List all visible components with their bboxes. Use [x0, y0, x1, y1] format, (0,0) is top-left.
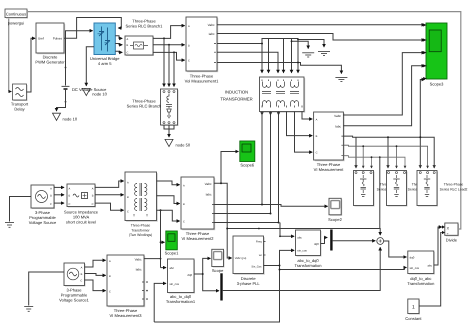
svg-text:Uref: Uref [38, 37, 44, 41]
wire: transformer b to VI Measurement2 B [157, 196, 180, 204]
svg-text:3-phase PLL: 3-phase PLL [237, 281, 261, 286]
svg-text:C: C [50, 203, 52, 206]
svg-text:INDUCTION: INDUCTION [225, 89, 248, 94]
ground (transformer neutral 1) [302, 53, 314, 57]
Transport Delay block [11, 84, 29, 112]
svg-text:B: B [188, 44, 190, 47]
svg-text:abc: abc [170, 266, 175, 270]
Scope2 block (white scope) [328, 198, 342, 222]
Three-Phase VI Measurement block [314, 112, 345, 172]
wire: c-phase tap down to sum block and cross line [227, 157, 380, 235]
svg-text:Scope2: Scope2 [328, 217, 342, 222]
wire: Pulses routed over the top into Universal Bridge gate input [64, 18, 121, 39]
svg-text:wt: wt [259, 254, 262, 257]
svg-text:A: A [69, 187, 71, 190]
wire: phase a feed line to loads and Scope3 input 5 [343, 80, 434, 169]
svg-text:VI Measurement2: VI Measurement2 [182, 236, 215, 241]
Three-Phase Series RLC Load1 block [387, 171, 436, 207]
svg-text:Series RLC Branch1: Series RLC Branch1 [126, 24, 164, 29]
svg-text:C: C [109, 290, 111, 293]
Three-Phase Series RLC Branch1 block [125, 19, 163, 57]
wire: Transformation dq0 to Mux2 [321, 238, 328, 244]
svg-text:Divide: Divide [446, 237, 458, 242]
Three-Phase VI Measurement3 block [107, 255, 148, 318]
node junctions on A B C wires feeding series RLC branch below [163, 37, 175, 53]
sum block (circle) [377, 238, 384, 245]
Three-Phase Series RLC Branch block (vertical) [127, 89, 179, 126]
wire: sum output to dq0_to_abc dq0 input [384, 241, 407, 257]
wire: Mux1 output to sum block lower input [223, 247, 381, 290]
svg-text:B: B [183, 203, 185, 206]
3-Phase Programmable Voltage Source1 block [59, 263, 89, 303]
wire: source1 outputs to VI Measurement3 [85, 260, 106, 290]
svg-text:Vol Measurement1: Vol Measurement1 [185, 79, 219, 84]
svg-text:Vabc (pu): Vabc (pu) [235, 257, 247, 260]
Three-Phase Series RLC Load2 block [417, 171, 467, 207]
svg-text:C: C [127, 52, 129, 55]
svg-text:powergui: powergui [8, 21, 25, 26]
svg-text:B: B [92, 195, 94, 198]
ground (transformer neutral 3) [335, 77, 347, 81]
ground (source1 neutral) [24, 307, 33, 312]
wire: grand feedback loop from Divide output across top to Transport Delay input [9, 12, 461, 229]
svg-text:B: B [69, 195, 71, 198]
svg-text:Scope3: Scope3 [430, 82, 444, 87]
svg-text:A: A [92, 187, 94, 190]
wire: transformer a2 down to measurement2 a rail [261, 112, 263, 205]
svg-text:short circuit level: short circuit level [66, 220, 96, 225]
svg-text:Scope6: Scope6 [240, 163, 254, 168]
svg-text:VI Measurement3: VI Measurement3 [110, 313, 143, 318]
wire: transformer a to VI Measurement2 A [157, 181, 180, 185]
INDUCTION TRANSFORMER block [220, 77, 305, 113]
svg-text:C: C [127, 211, 129, 214]
Three-Phase VI Measurement2 block [181, 177, 215, 241]
Constant block [405, 299, 422, 321]
svg-text:node 10: node 10 [63, 117, 78, 122]
svg-text:Iabc: Iabc [209, 32, 215, 36]
svg-text:A: A [127, 38, 129, 41]
wire: rail down left of VI Measurement2 [161, 210, 167, 267]
wire: transformer c to VI Measurement2 C [157, 210, 180, 221]
svg-text:C: C [188, 60, 190, 63]
ground node 10 (below DC source) [53, 113, 78, 121]
Scope3 block (green) [423, 23, 447, 87]
wire: phase b feed line to loads [343, 145, 427, 168]
svg-text:Series RLC Branch: Series RLC Branch [127, 104, 162, 109]
svg-text:dq0: dq0 [187, 273, 192, 277]
Discrete 3-phase PLL block [233, 236, 266, 286]
svg-text:Voltage Source: Voltage Source [29, 220, 57, 225]
wire: Mux2 output to sum block [333, 240, 376, 242]
svg-text:Continuous: Continuous [6, 11, 26, 16]
svg-text:A: A [109, 260, 111, 263]
svg-text:PWM Generator: PWM Generator [35, 60, 65, 65]
wire: DC source negative to ground node 10 (left) [57, 90, 66, 111]
svg-text:A: A [50, 187, 52, 190]
svg-text:Freq: Freq [256, 241, 262, 244]
svg-text:B: B [316, 135, 318, 138]
svg-text:1: 1 [412, 304, 415, 310]
wire: Transport Delay to Uref of PWM generator [27, 38, 36, 92]
Three-Phase Series RLC Load block [354, 171, 403, 207]
Three-Phase Vol Measurement1 block [185, 17, 219, 84]
wire: RLC Branch1 C to Vol Measurement1 C [153, 52, 185, 60]
wire: transformer b2 down to measurement2 b rail [270, 112, 272, 214]
svg-text:B: B [81, 273, 83, 276]
wire: transformer c2 down to measurement2 c rail [278, 112, 280, 223]
svg-text:abc: abc [297, 235, 302, 239]
svg-text:4 arm 5: 4 arm 5 [98, 61, 112, 66]
svg-text:Transformation: Transformation [407, 281, 434, 286]
svg-text:dq0: dq0 [314, 242, 319, 246]
svg-text:Delay: Delay [14, 107, 25, 112]
svg-text:sin_cos: sin_cos [410, 266, 420, 270]
svg-text:node 10: node 10 [92, 92, 107, 97]
wire: bridge outputs A B C to Three-Phase Series RLC Branch1 [115, 36, 122, 53]
Mux1 bar [220, 273, 222, 300]
wire: Constant to Divide divisor input [419, 233, 442, 307]
svg-text:Pulses: Pulses [53, 37, 63, 41]
junction dots near transformer feeds [261, 39, 299, 64]
wire: Vabc1 to Scope3 input 1 [217, 24, 425, 26]
svg-text:B: B [50, 195, 52, 198]
svg-text:VI Measurement: VI Measurement [314, 167, 345, 172]
wire: transformer b3 to VI Measurement C [295, 112, 313, 153]
wire: VI Measurement2 b rail end [214, 213, 271, 215]
powergui block (Continuous) [5, 9, 28, 26]
svg-text:A: A [316, 119, 318, 122]
wire: rail feeding transformer ports A2 B2 C2 [262, 39, 298, 73]
svg-text:Three-Phase: Three-Phase [444, 183, 464, 187]
Divide block [445, 223, 459, 242]
svg-text:Series RLC Load2: Series RLC Load2 [440, 188, 468, 192]
Divide input arrows [442, 225, 445, 234]
svg-text:÷: ÷ [447, 232, 449, 236]
svg-text:B: B [127, 196, 129, 199]
wire: sin_cos riser into Transformation1 [154, 283, 166, 322]
wire: measurement1 a to transformer port A1 [217, 44, 262, 73]
svg-text:node 50: node 50 [176, 143, 191, 148]
svg-text:Scope1: Scope1 [165, 251, 179, 256]
svg-text:(Two Windings): (Two Windings) [129, 233, 152, 237]
svg-text:Iabc: Iabc [136, 267, 142, 271]
Discrete PWM Generator block [35, 23, 65, 65]
abc_to_dq0 Transformation1 block [166, 259, 196, 304]
Three-Phase Transformer (Two Windings) block [125, 172, 158, 237]
wire: VI Measurement3 Vabc joins rail [144, 258, 161, 260]
junction on c wire feeding rail to Scope1 and Transformation1 [160, 209, 162, 211]
wire: VI Measurement Vabc to Scope3 input 3 [343, 53, 424, 115]
svg-text:TRANSFORMER: TRANSFORMER [220, 96, 252, 101]
wire: PLL Sin_Cos distribution net [154, 250, 406, 322]
dq0_to_abc Transformation block [407, 251, 435, 286]
wire: measurement1 b to transformer port B1 [217, 52, 278, 73]
abc_to_dq0 Transformation block [294, 230, 321, 268]
wire: RLC Branch1 B to Vol Measurement1 B [153, 44, 185, 46]
wire: source neutral to ground [10, 197, 32, 222]
svg-text:dq0: dq0 [410, 255, 415, 259]
wire: bridge - terminal to ground node 10 [86, 47, 94, 86]
wire: VI Measurement2 Vabc riser to Scope6 and PLL [214, 152, 238, 259]
wire: transformer a3 to VI Measurement B [287, 112, 313, 136]
wire: transformer c3 to VI Measurement A [302, 112, 312, 120]
wire: VI Measurement2 c rail end and tap to abc input [214, 223, 294, 237]
svg-text:Iabc: Iabc [335, 125, 341, 129]
Mux2 bar [330, 230, 332, 251]
svg-text:B: B [109, 275, 111, 278]
wire: ground tap 2 [298, 40, 324, 48]
wire: ground tap 1 [292, 41, 309, 48]
svg-text:Iabc: Iabc [206, 193, 212, 197]
wire: taps down to Three-Phase Series RLC Branch [164, 38, 174, 86]
svg-text:A: A [81, 266, 83, 269]
wire: impedance outputs to Three-Phase Transformer [95, 181, 124, 210]
svg-text:A: A [127, 181, 129, 184]
Universal Bridge block (blue) [90, 23, 120, 66]
wire: DC source positive riser to bridge + terminal [66, 31, 93, 86]
Source Impedance block [64, 184, 99, 225]
wire: RLC Branch1 A to Vol Measurement1 A [153, 26, 185, 39]
Scope1 block (green) [165, 231, 179, 256]
svg-text:Vabc: Vabc [334, 114, 341, 118]
svg-text:Vabc: Vabc [208, 23, 215, 27]
svg-text:C: C [80, 280, 82, 283]
svg-text:sin_cos: sin_cos [170, 282, 180, 286]
svg-text:Constant: Constant [405, 316, 422, 321]
wire: dq0_to_abc abc output to Divide X input [434, 227, 442, 265]
junction dots on load feed lines [362, 136, 421, 158]
svg-text:Transformer: Transformer [131, 228, 150, 232]
wire: Iabc1 to Scope3 input 2 [217, 34, 425, 41]
wire: VI Measurement2 a to Scope2 [214, 205, 328, 207]
3-Phase Programmable Voltage Source block [29, 185, 57, 225]
DC Voltage Source battery symbol [62, 67, 108, 103]
svg-text:C: C [183, 221, 185, 224]
ground node 50 [165, 139, 191, 147]
svg-text:C: C [69, 203, 71, 206]
svg-text:Three-Phase: Three-Phase [131, 224, 151, 228]
svg-text:Sin_Cos: Sin_Cos [251, 266, 262, 269]
svg-text:Scope: Scope [212, 268, 224, 273]
wire: source1 neutral to ground [29, 272, 64, 306]
wire: series RLC branch merge to ground node 50 [164, 125, 174, 137]
svg-text:Voltage Source1: Voltage Source1 [59, 298, 89, 303]
ground (transformer neutral 2) [318, 51, 330, 55]
svg-text:A: A [183, 184, 185, 187]
svg-text:sin_cos: sin_cos [297, 249, 307, 253]
wire: source A B C to Source Impedance [54, 187, 64, 203]
svg-text:C: C [92, 203, 94, 206]
svg-text:Vabc: Vabc [135, 257, 142, 261]
ground node 10 (below bridge) [82, 88, 107, 96]
wire: phase c feed line to loads [343, 156, 405, 168]
svg-text:C: C [316, 152, 318, 155]
ground (source neutral) [5, 223, 14, 228]
svg-text:abc: abc [427, 263, 432, 267]
svg-text:Transformation1: Transformation1 [166, 299, 196, 304]
wire: Transformation1 dq0 to Scope and Mux [194, 258, 219, 290]
wire: VI Measurement Iabc to Scope3 input 4 [343, 66, 424, 126]
Scope block (white scope) [212, 249, 225, 273]
Scope6 block (green) [240, 141, 255, 168]
svg-text:A: A [188, 25, 190, 28]
svg-text:B: B [127, 44, 129, 47]
wire: measurement1 c to ground branch [217, 63, 341, 74]
svg-text:Transformation: Transformation [294, 263, 321, 268]
svg-text:Vabc: Vabc [205, 182, 212, 186]
